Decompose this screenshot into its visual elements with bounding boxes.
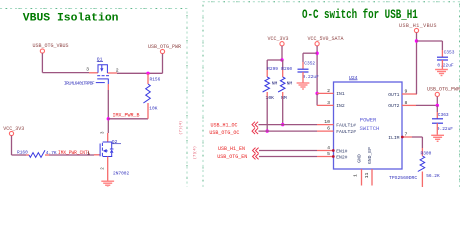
Q1 pin 2 stub: [107, 72, 117, 74]
svg-text:9: 9: [405, 88, 408, 94]
junction C352 branch: [315, 52, 318, 55]
wire VCC_5V0_SATA down: [316, 46, 318, 94]
pin 8 OUT2 stub: [402, 104, 416, 106]
pin dot EN1#: [332, 149, 335, 152]
port circle VCC_3V3 left: [9, 131, 13, 135]
pin 7 ILIM stub: [402, 136, 412, 138]
svg-text:VCC_3V3: VCC_3V3: [268, 36, 289, 42]
wire R260 to FAULT1 net: [282, 99, 284, 125]
svg-text:3: 3: [327, 100, 330, 106]
svg-text:OUT1: OUT1: [388, 92, 399, 98]
svg-text:TPS2560DRC: TPS2560DRC: [389, 175, 417, 181]
svg-text:EN2#: EN2#: [336, 154, 347, 160]
wire to Q1 pin3: [42, 72, 89, 74]
C352 top wire: [302, 53, 304, 62]
svg-text:4: 4: [327, 145, 330, 151]
off-page connector USB_OTG_OC: [252, 128, 255, 134]
wire USB_OTG_VBUS down: [41, 53, 43, 73]
R299 bottom lead: [266, 92, 268, 99]
svg-text:USB_OTG_PWR: USB_OTG_PWR: [148, 44, 181, 50]
svg-text:EN1#: EN1#: [336, 148, 347, 154]
ground under Q2: [101, 180, 114, 182]
off-page connector USB_H1_EN: [253, 148, 256, 154]
resistor R156 top lead: [147, 73, 149, 84]
svg-text:C352: C352: [304, 61, 315, 67]
R300 top lead: [421, 148, 423, 156]
svg-text:R299: R299: [267, 66, 278, 72]
svg-text:56.2K: 56.2K: [426, 173, 440, 179]
off-page connector USB_OTG_EN: [253, 154, 256, 160]
wire VCC_3V3 down: [11, 136, 13, 155]
svg-text:5: 5: [327, 151, 330, 157]
wire IMX_PWR_CNTL: [49, 154, 94, 156]
junction R260/USB_H1_OC: [281, 123, 284, 126]
wire down to R260: [282, 60, 284, 70]
wire down to R299: [266, 60, 268, 70]
pin dot ILIM: [401, 136, 404, 139]
R156 bottom lead: [147, 103, 149, 119]
svg-text:IMX_PWR_B: IMX_PWR_B: [113, 112, 140, 118]
C363 bottom lead: [436, 123, 438, 135]
port circle USB_OTG_PWR: [160, 49, 164, 53]
wire USB_OTG_PWR down: [162, 54, 164, 74]
R260 top lead: [282, 70, 284, 77]
svg-text:11: 11: [364, 173, 370, 179]
pin dot EN2#: [332, 155, 335, 158]
svg-text:USB_H1_OC: USB_H1_OC: [211, 122, 238, 128]
svg-text:C353: C353: [444, 50, 455, 56]
svg-text:(7): (7): [193, 152, 198, 159]
svg-text:1: 1: [352, 174, 358, 177]
svg-text:IN1: IN1: [336, 91, 345, 97]
wire USB_H1_VBUS down to OUT1: [416, 33, 418, 94]
svg-text:VCC_3V3: VCC_3V3: [3, 126, 24, 132]
C353 bottom lead: [441, 60, 443, 69]
resistor R299: [263, 77, 270, 92]
R160 right lead: [45, 154, 49, 156]
svg-text:IN2: IN2: [336, 103, 345, 109]
wire R299 to FAULT2 net: [266, 99, 268, 131]
pin 3 IN2 stub: [317, 104, 334, 106]
Q2 drain stub: [107, 133, 109, 142]
pin 2 IN1 stub: [317, 92, 334, 94]
port circle USB_OTG_VBUS: [40, 49, 44, 53]
svg-text:(7): (7): [178, 128, 183, 135]
svg-text:NM: NM: [272, 81, 278, 87]
ground under C353: [435, 69, 448, 71]
svg-text:GND_EP: GND_EP: [367, 147, 373, 164]
svg-text:FAULT2#: FAULT2#: [336, 129, 356, 135]
wire Q1 pin2 to USB_OTG_PWR: [117, 72, 163, 74]
resistor R160: [29, 150, 45, 157]
wire OUT2: [416, 104, 437, 106]
wire VCC_3V3 down: [281, 46, 283, 60]
C352 top lead: [302, 62, 304, 69]
wire down to R300: [421, 137, 423, 148]
svg-text:7: 7: [405, 131, 408, 137]
wire USB_OTG_OC to FAULT2#: [259, 130, 318, 132]
svg-text:R156: R156: [150, 77, 161, 83]
svg-text:POWER: POWER: [360, 117, 377, 124]
svg-text:NM: NM: [281, 95, 287, 101]
pin 9 OUT1 stub: [402, 93, 417, 95]
resistor R156: [143, 84, 150, 103]
svg-text:USB_OTG_PWR: USB_OTG_PWR: [427, 86, 460, 92]
right section border (dashed green): [203, 2, 460, 187]
junction IMX_PWR_B: [107, 117, 110, 120]
R299 top lead: [266, 70, 268, 77]
C352 bottom lead: [302, 72, 304, 83]
R260 bottom lead: [282, 92, 284, 99]
C363 top lead: [436, 112, 438, 119]
off-page connector USB_H1_OC: [252, 122, 255, 128]
wire Q1 gate to Q2 drain: [107, 90, 109, 133]
ground under C352: [297, 82, 310, 84]
svg-text:O-C switch for USB_H1: O-C switch for USB_H1: [302, 9, 418, 23]
wire branch to R299: [267, 59, 282, 61]
left section border (dashed green): [0, 9, 187, 188]
svg-text:1: 1: [87, 150, 90, 156]
Q2 source lead: [107, 157, 109, 181]
port circle USB_OTG_PWR right: [435, 92, 439, 96]
wire down to IN2: [316, 93, 318, 105]
svg-text:2N7002: 2N7002: [113, 170, 130, 176]
R300 bottom lead: [421, 172, 423, 188]
pin 10 FAULT1# stub: [317, 124, 334, 126]
svg-text:2: 2: [116, 67, 119, 73]
svg-text:IMX_PWR_CNTL: IMX_PWR_CNTL: [58, 150, 91, 156]
pin 1 GND stub: [361, 169, 363, 186]
svg-text:(4): (4): [193, 146, 198, 153]
svg-text:IRLML6401TRPBF: IRLML6401TRPBF: [64, 80, 95, 86]
ground under C363: [431, 134, 444, 136]
op-amp U24 TPS2560DRC power switch IC body: [334, 82, 403, 169]
svg-text:3: 3: [86, 67, 89, 73]
svg-text:6: 6: [327, 126, 330, 132]
junction C353 branch: [415, 39, 418, 42]
pin 6 FAULT2# stub: [317, 130, 334, 132]
resistor R300: [418, 156, 425, 171]
C353 top lead: [441, 50, 443, 57]
pin 5 EN2# stub: [317, 156, 334, 158]
junction R299/USB_OTG_OC: [266, 129, 269, 132]
wire USB_H1_OC to FAULT1#: [259, 124, 318, 126]
svg-text:USB_H1_VBUS: USB_H1_VBUS: [399, 23, 437, 29]
R160 left lead: [26, 154, 29, 156]
pin 4 EN1# stub: [317, 150, 334, 152]
wire USB_H1_EN to EN1#: [259, 150, 317, 152]
transistor Q1 IRLML6401TRPBF (P-MOSFET): [96, 65, 109, 84]
port circle VCC_3V3 right: [280, 42, 284, 46]
svg-text:OUT2: OUT2: [388, 103, 399, 109]
wire USB_OTG_EN to EN2#: [259, 156, 317, 158]
svg-text:USB_OTG_EN: USB_OTG_EN: [217, 154, 247, 160]
junction OUT2/C363: [436, 104, 439, 107]
svg-text:NM: NM: [287, 81, 293, 87]
svg-text:(4): (4): [178, 121, 183, 128]
junction R156 top: [146, 72, 149, 75]
svg-text:ILIM: ILIM: [388, 135, 399, 141]
svg-text:VBUS Isolation: VBUS Isolation: [23, 12, 119, 24]
wire ILIM to R300: [412, 136, 422, 138]
svg-text:R260: R260: [281, 66, 292, 72]
C363 top wire: [436, 105, 438, 112]
port circle USB_H1_VBUS: [414, 28, 418, 32]
svg-text:2: 2: [327, 88, 330, 94]
junction IN1: [315, 92, 318, 95]
Q1 gate stub: [107, 84, 109, 90]
wire IMX_PWR_B: [108, 118, 148, 120]
svg-text:R160: R160: [17, 150, 28, 156]
svg-text:10: 10: [324, 119, 330, 125]
svg-text:FAULT1#: FAULT1#: [336, 122, 356, 128]
svg-text:SWITCH: SWITCH: [360, 125, 380, 132]
port circle VCC_5V0_SATA: [315, 42, 319, 46]
svg-text:0.22uF: 0.22uF: [437, 126, 454, 132]
Q1 pin 3 stub: [89, 72, 98, 74]
pin 11 GND_EP stub: [371, 169, 373, 186]
svg-text:C363: C363: [438, 112, 449, 118]
wire port down to OUT2: [436, 97, 438, 106]
svg-text:10K: 10K: [149, 105, 157, 111]
wire to C352: [303, 52, 317, 54]
svg-text:GND: GND: [356, 154, 362, 163]
wire to C353: [417, 40, 443, 42]
junction R299/R260: [280, 58, 283, 61]
svg-text:0.22uF: 0.22uF: [303, 74, 320, 80]
svg-text:R300: R300: [421, 151, 432, 157]
svg-text:VCC_5V0_SATA: VCC_5V0_SATA: [308, 36, 344, 42]
svg-text:8: 8: [405, 100, 408, 106]
svg-text:0.22uF: 0.22uF: [437, 63, 454, 69]
resistor R260: [278, 77, 285, 92]
svg-text:USB_H1_EN: USB_H1_EN: [218, 146, 245, 152]
svg-text:USB_OTG_VBUS: USB_OTG_VBUS: [33, 43, 69, 49]
wire to R160: [12, 154, 27, 156]
Q2 gate stub: [94, 154, 100, 156]
C353 top wire: [441, 41, 443, 50]
svg-text:USB_OTG_OC: USB_OTG_OC: [209, 130, 239, 136]
